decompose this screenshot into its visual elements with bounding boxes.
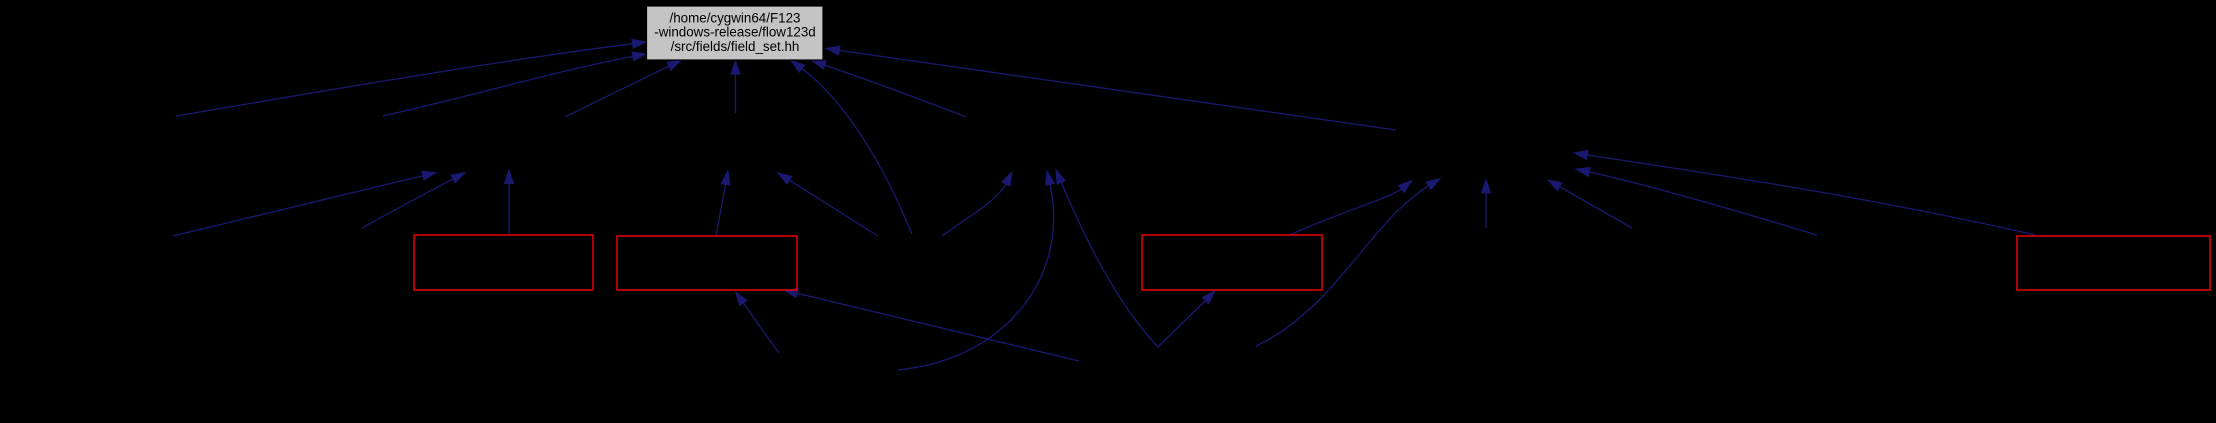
svg-text:/src/fields/field_set.hh: /src/fields/field_set.hh xyxy=(671,39,800,54)
svg-text:/home/cygwin64/F123: /home/cygwin64/F123 xyxy=(669,10,800,25)
svg-text:-windows-release/flow123d: -windows-release/flow123d xyxy=(654,25,816,40)
